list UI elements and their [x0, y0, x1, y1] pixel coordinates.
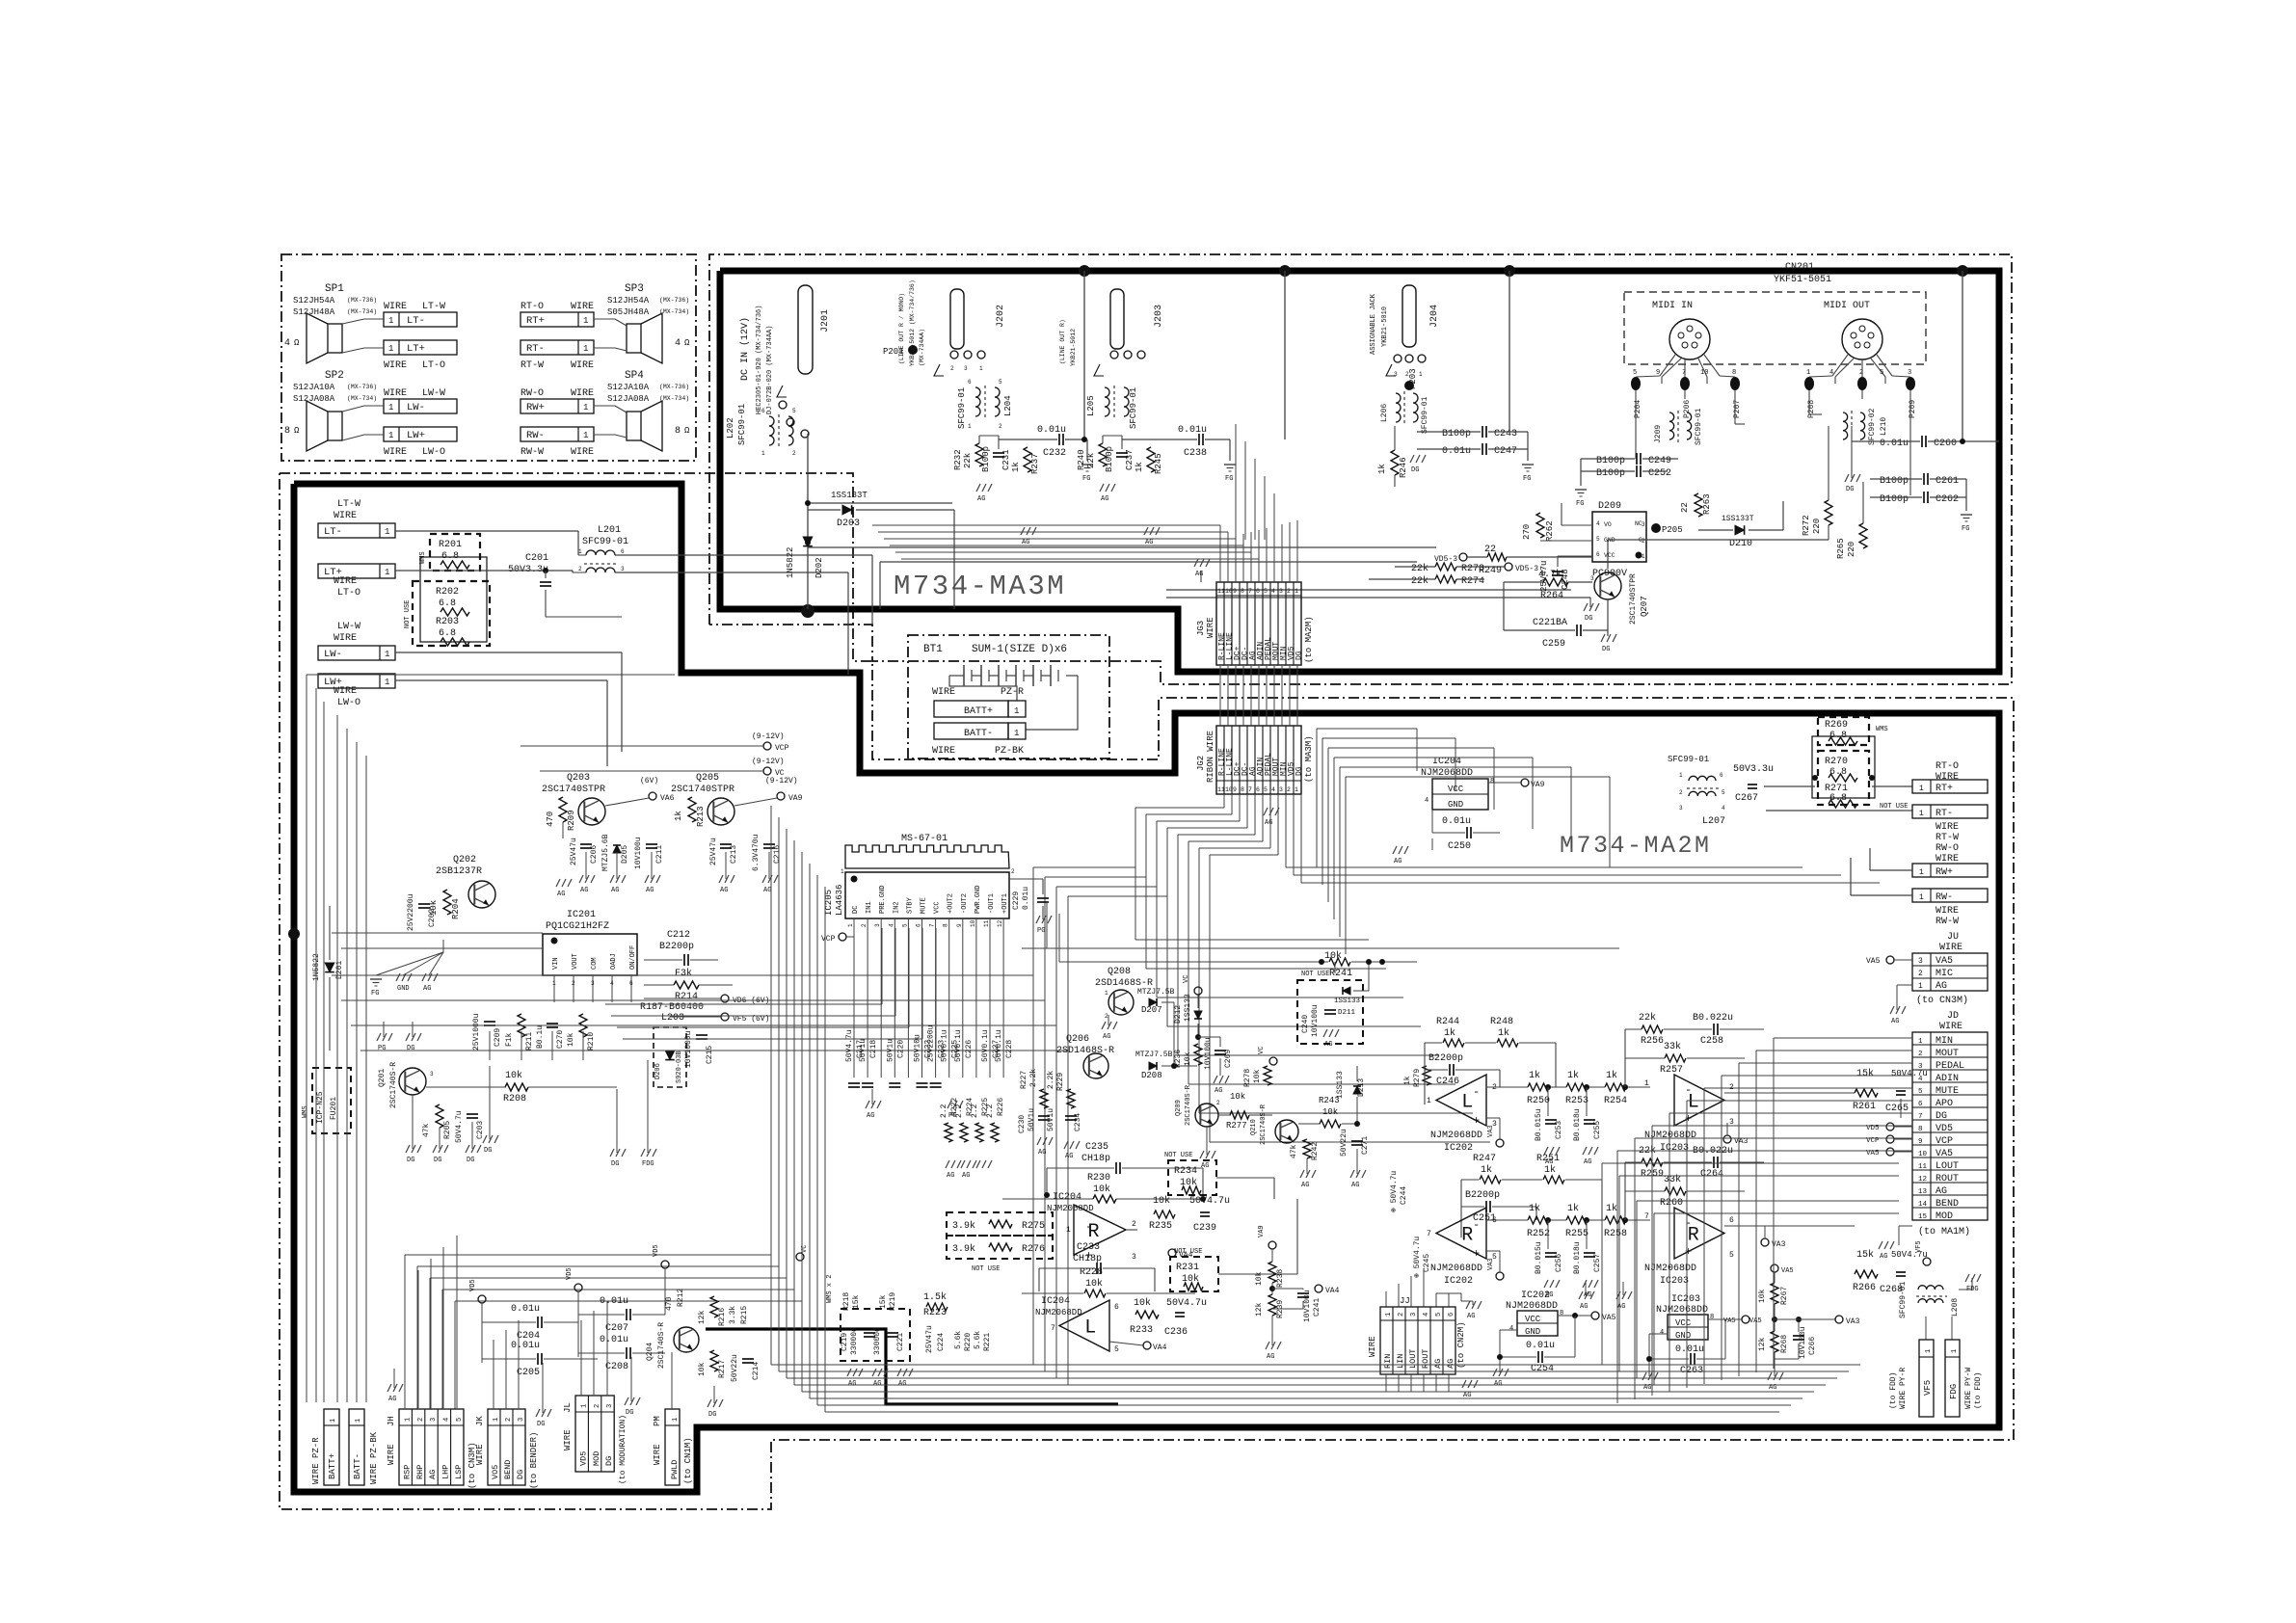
svg-text:-: - [1473, 1085, 1480, 1099]
svg-text:LW-O: LW-O [422, 447, 445, 458]
svg-text:VD5-3: VD5-3 [1434, 555, 1457, 564]
bottom horizontal feed wires [307, 674, 675, 676]
svg-text:50V4.7u: 50V4.7u [455, 1110, 464, 1143]
svg-text:R244: R244 [1436, 1017, 1459, 1027]
svg-text:C205: C205 [517, 1368, 540, 1378]
svg-text:WIRE: WIRE [334, 576, 357, 587]
svg-text:1k: 1k [1135, 462, 1144, 472]
ground AG under C269 [1214, 1076, 1217, 1083]
svg-text:(to FDD): (to FDD) [1889, 1372, 1898, 1409]
svg-text:P208: P208 [1807, 400, 1816, 418]
svg-text:MTZJ7.5B: MTZJ7.5B [1135, 1051, 1173, 1059]
svg-text:B0.018u: B0.018u [1573, 1241, 1582, 1274]
svg-text:WMS x 2: WMS x 2 [826, 1275, 834, 1303]
svg-text:DG: DG [516, 1470, 525, 1479]
svg-text:5: 5 [1729, 1251, 1734, 1260]
svg-text:MTZJ5.6B: MTZJ5.6B [601, 834, 610, 871]
svg-text:R216: R216 [718, 1308, 727, 1326]
svg-text:6.8: 6.8 [439, 628, 456, 639]
svg-text:C266: C266 [1808, 1337, 1817, 1355]
ground AG under R237 [1021, 527, 1025, 535]
svg-text:R249: R249 [1479, 566, 1502, 576]
svg-text:VCP: VCP [775, 744, 789, 753]
wires down from JJ to bundle [1385, 1374, 1387, 1392]
svg-text:0.01u: 0.01u [1526, 1341, 1555, 1351]
svg-text:R247: R247 [1473, 1154, 1496, 1164]
svg-text:WIRE: WIRE [932, 746, 955, 757]
svg-text:VA9: VA9 [1258, 1225, 1266, 1237]
svg-text:IN1: IN1 [866, 901, 873, 914]
svg-text:0.01u: 0.01u [511, 1304, 540, 1315]
junction dots on MA3M top border [1079, 265, 1090, 277]
svg-text:J201: J201 [820, 309, 831, 333]
svg-text:LIN: LIN [1396, 1354, 1405, 1369]
svg-text:2SC1740STPR: 2SC1740STPR [542, 785, 605, 795]
svg-text:(6V): (6V) [640, 777, 658, 785]
svg-text:C260: C260 [1934, 439, 1957, 449]
svg-text:PG: PG [948, 1112, 956, 1120]
svg-text:LT-W: LT-W [337, 499, 360, 510]
svg-text:LW+: LW+ [407, 430, 425, 441]
svg-text:NOT USE: NOT USE [404, 600, 412, 628]
svg-text:L: L [1461, 1092, 1473, 1114]
svg-text:(to MA1M): (to MA1M) [1918, 1226, 1970, 1237]
svg-text:-OUT1: -OUT1 [988, 893, 996, 914]
resistors R270 R271 6.8 dashed [1818, 751, 1869, 805]
svg-text:R238: R238 [1276, 1269, 1285, 1288]
svg-text:DJ-072B-020 (MX-734AA): DJ-072B-020 (MX-734AA) [766, 326, 774, 414]
svg-text:1: 1 [1679, 772, 1683, 779]
svg-text:PWLD: PWLD [670, 1460, 680, 1479]
svg-text:4: 4 [1722, 805, 1725, 811]
svg-text:SP3: SP3 [625, 283, 644, 295]
ground AG right of JJ [1462, 1380, 1466, 1388]
svg-text:VA4: VA4 [1325, 1287, 1340, 1295]
svg-text:50V10u: 50V10u [914, 1034, 922, 1062]
svg-text:RW+: RW+ [526, 402, 545, 413]
svg-text:COM: COM [591, 957, 599, 970]
svg-text:JL: JL [563, 1402, 573, 1413]
ground DG under Q207 [1601, 634, 1605, 642]
svg-text:5: 5 [999, 379, 1002, 386]
svg-text:50V22u: 50V22u [731, 1354, 739, 1382]
svg-text:LW-: LW- [324, 649, 342, 660]
svg-text:R236: R236 [1174, 1050, 1183, 1068]
op-amp IC203 L [1674, 1075, 1724, 1126]
svg-text:C237: C237 [1125, 449, 1135, 470]
svg-text:3: 3 [1132, 1253, 1136, 1262]
svg-text:D212: D212 [1174, 1005, 1183, 1024]
svg-text:1: 1 [841, 868, 844, 875]
svg-text:-: - [1685, 1216, 1692, 1230]
svg-text:15k: 15k [852, 1294, 861, 1309]
svg-text:470: 470 [665, 1296, 674, 1311]
svg-text:6: 6 [1114, 1303, 1119, 1312]
svg-text:R212: R212 [677, 1289, 685, 1307]
ground AG inside D211 box [1323, 1029, 1327, 1037]
svg-text:10k: 10k [1230, 1092, 1245, 1102]
svg-text:IC203: IC203 [1660, 1276, 1689, 1287]
svg-text:R210: R210 [587, 1032, 596, 1051]
svg-text:10k: 10k [1322, 1107, 1338, 1117]
svg-text:-: - [1473, 1218, 1480, 1232]
ribbon wires JG3-JG2 [1219, 665, 1221, 726]
svg-text:NOT USE: NOT USE [1174, 1248, 1202, 1256]
svg-text:AG: AG [1891, 1018, 1899, 1025]
svg-text:1: 1 [493, 1418, 500, 1422]
svg-text:1: 1 [388, 316, 393, 326]
svg-text:10k: 10k [1153, 1195, 1170, 1207]
svg-text:MTZJ7.5B: MTZJ7.5B [1137, 988, 1175, 997]
svg-text:C270: C270 [556, 1030, 565, 1049]
coil L206 [1396, 393, 1401, 422]
svg-text:P204: P204 [1634, 400, 1642, 418]
MA2M inner corridor wires [1317, 728, 1417, 730]
svg-text:RHP: RHP [415, 1465, 425, 1479]
svg-text:AG: AG [867, 1112, 874, 1120]
svg-text:R270: R270 [1825, 757, 1848, 767]
wire BATT- [934, 723, 1008, 739]
svg-text:R232: R232 [953, 449, 963, 470]
svg-text:5: 5 [1435, 1313, 1443, 1317]
svg-text:C258: C258 [1700, 1036, 1723, 1047]
svg-text:6: 6 [1256, 588, 1260, 595]
wires into RW boxes [1870, 869, 1912, 871]
VD6 terminal [721, 995, 729, 1002]
svg-text:3: 3 [874, 923, 881, 927]
svg-text:10V100u: 10V100u [1799, 1326, 1807, 1359]
svg-text:R266: R266 [1853, 1283, 1876, 1293]
svg-text:2: 2 [950, 365, 954, 372]
svg-text:2: 2 [1287, 588, 1291, 595]
svg-text:WIRE PZ-R: WIRE PZ-R [311, 1437, 321, 1484]
svg-text:JJ: JJ [1400, 1296, 1410, 1306]
svg-text:1: 1 [355, 1419, 362, 1423]
grounds DG FDG right [610, 1149, 614, 1157]
svg-text:GND: GND [1525, 1327, 1540, 1337]
svg-text:C224: C224 [937, 1333, 946, 1351]
svg-text:1: 1 [1919, 893, 1924, 902]
svg-text:DG: DG [604, 1456, 614, 1466]
svg-text:VO: VO [1604, 521, 1612, 528]
svg-text:2.2: 2.2 [971, 1104, 979, 1118]
ground DG under L210 [1851, 426, 1853, 478]
svg-text:R201: R201 [439, 540, 462, 550]
svg-text:LW-O: LW-O [337, 698, 360, 708]
svg-text:3: 3 [606, 1404, 614, 1408]
svg-text:5.6k: 5.6k [954, 1331, 963, 1349]
svg-text:2SC1740STPR: 2SC1740STPR [671, 785, 734, 795]
svg-text:(MX-734): (MX-734) [347, 395, 377, 402]
svg-text:7: 7 [1248, 588, 1252, 595]
svg-text:IC202: IC202 [1444, 1276, 1473, 1287]
svg-text:1SS133T: 1SS133T [1722, 515, 1754, 523]
svg-text:R251: R251 [1536, 1154, 1560, 1164]
svg-text:15k: 15k [879, 1294, 888, 1309]
svg-text:R252: R252 [1527, 1229, 1550, 1239]
svg-text:5: 5 [1722, 789, 1725, 796]
svg-text:1: 1 [1014, 729, 1019, 738]
svg-text:(to CN2M): (to CN2M) [1456, 1321, 1466, 1369]
solid frame R270 [1812, 736, 1875, 798]
svg-text:SFC99-01: SFC99-01 [582, 537, 628, 547]
svg-text:AG: AG [763, 887, 771, 894]
svg-text:(to CN1M): (to CN1M) [683, 1437, 693, 1484]
svg-text:1: 1 [1642, 553, 1645, 560]
svg-text:LT-W: LT-W [422, 302, 445, 312]
wire from top dot down to C243 net [1508, 271, 1510, 432]
svg-text:LW-W: LW-W [422, 388, 445, 399]
svg-text:AG: AG [1936, 981, 1947, 992]
svg-text:50V22u: 50V22u [1340, 1129, 1348, 1157]
svg-text:RW+: RW+ [1936, 867, 1953, 878]
svg-text:(MX-734): (MX-734) [659, 308, 689, 315]
connector JG2 [1216, 726, 1301, 794]
svg-text:C261: C261 [1936, 476, 1959, 487]
svg-text:7: 7 [1682, 369, 1686, 377]
svg-text:FG: FG [1576, 500, 1584, 508]
lower board thick outline [294, 484, 1999, 1492]
svg-text:BEND: BEND [503, 1460, 513, 1479]
svg-text:50V3.3u: 50V3.3u [1733, 764, 1774, 775]
svg-text:R261: R261 [1853, 1102, 1876, 1112]
svg-text:WIRE: WIRE [932, 687, 955, 698]
svg-text:C234: C234 [1074, 1113, 1082, 1131]
svg-text:5: 5 [792, 408, 796, 414]
svg-text:PG: PG [378, 1045, 386, 1052]
svg-text:C238: C238 [1184, 448, 1207, 459]
svg-text:1: 1 [330, 1419, 337, 1423]
svg-text:JG2: JG2 [1196, 756, 1206, 771]
svg-text:Q210: Q210 [1250, 1119, 1258, 1135]
left-to-middle horizontal feeders [332, 974, 1033, 976]
svg-text:6: 6 [1596, 551, 1600, 558]
svg-text:25V47u: 25V47u [925, 1325, 934, 1353]
svg-text:IC202: IC202 [1521, 1290, 1550, 1301]
svg-text:C203: C203 [476, 1121, 485, 1139]
svg-text:R255: R255 [1565, 1229, 1589, 1239]
svg-text:1SS133T: 1SS133T [831, 491, 868, 500]
svg-text:DG: DG [407, 1045, 414, 1052]
svg-text:4: 4 [1271, 588, 1275, 595]
svg-text:4: 4 [675, 338, 681, 349]
svg-text:RW-W: RW-W [1936, 917, 1959, 927]
svg-text:9: 9 [956, 923, 963, 927]
grounds AG PG under pin wires [866, 1101, 869, 1108]
svg-text:C236: C236 [1164, 1327, 1188, 1338]
svg-text:4.7k: 4.7k [1538, 569, 1562, 580]
svg-text:PQ1CG21H2FZ: PQ1CG21H2FZ [546, 921, 609, 932]
svg-text:-OUT2: -OUT2 [961, 893, 969, 914]
svg-text:OADJ: OADJ [610, 953, 618, 970]
svg-text:WIRE: WIRE [334, 686, 357, 697]
svg-text:6: 6 [629, 980, 633, 987]
svg-text:AG: AG [1038, 1149, 1046, 1157]
svg-text:VA4: VA4 [1153, 1344, 1167, 1352]
svg-text:LT-: LT- [407, 315, 425, 327]
svg-text:-: - [1085, 1220, 1092, 1234]
svg-text:B2200p: B2200p [1465, 1190, 1500, 1201]
svg-text:(to BENDER): (to BENDER) [529, 1432, 539, 1489]
svg-text:J203: J203 [1154, 305, 1164, 328]
svg-text:VA9: VA9 [788, 794, 803, 803]
svg-text:IC202: IC202 [1444, 1143, 1473, 1154]
svg-text:2: 2 [792, 450, 796, 457]
svg-text:C215: C215 [706, 1046, 714, 1064]
svg-text:2SC1740S-R: 2SC1740S-R [1260, 1104, 1268, 1145]
svg-text:R279: R279 [1413, 1069, 1422, 1087]
svg-text:2: 2 [1859, 369, 1863, 377]
svg-text:2SC1740S-R: 2SC1740S-R [1185, 1084, 1192, 1126]
svg-text:R245: R245 [1154, 453, 1163, 474]
battery block dashed border [908, 635, 1109, 758]
svg-text:VCC: VCC [1525, 1315, 1541, 1324]
svg-text:R263: R263 [1702, 493, 1712, 515]
wire LT+ input box [318, 564, 395, 578]
svg-text:2: 2 [1679, 789, 1683, 796]
svg-text:R235: R235 [1149, 1221, 1172, 1232]
svg-text:10k: 10k [1182, 1273, 1199, 1285]
left feeder verticals to bottom bundle [1032, 867, 1034, 1365]
svg-text:R215: R215 [740, 1306, 749, 1324]
svg-text:10k: 10k [1085, 1278, 1103, 1290]
svg-text:DG: DG [537, 1421, 545, 1428]
svg-text:(MX-736): (MX-736) [347, 384, 377, 390]
wires from LT boxes to L201 [395, 530, 578, 532]
svg-text:6: 6 [761, 408, 765, 414]
svg-text:33k: 33k [1664, 1041, 1681, 1052]
svg-text:C231: C231 [1001, 449, 1011, 470]
svg-text:AG: AG [1446, 1359, 1455, 1369]
svg-text:2: 2 [578, 566, 582, 572]
svg-text:VC: VC [1258, 1047, 1266, 1054]
svg-text:1: 1 [672, 1418, 680, 1422]
resistor R238 10k [1268, 1241, 1276, 1249]
svg-text:5: 5 [1880, 369, 1883, 377]
svg-text:D201: D201 [335, 961, 344, 979]
svg-text:VA5: VA5 [1781, 1267, 1794, 1275]
svg-text:WIRE: WIRE [384, 388, 407, 399]
MIDI pads P204-P209 [1631, 377, 1641, 390]
ground AG under R245 [1144, 527, 1148, 535]
svg-text:2: 2 [999, 423, 1002, 430]
svg-text:1k: 1k [1606, 1203, 1617, 1214]
svg-text:IC204: IC204 [1053, 1192, 1081, 1203]
svg-text:VCC: VCC [1675, 1318, 1692, 1328]
svg-text:PG: PG [1037, 927, 1045, 935]
svg-text:C262: C262 [1936, 494, 1959, 505]
svg-text:R208: R208 [503, 1094, 526, 1104]
svg-text:NOT USE: NOT USE [972, 1265, 1000, 1273]
svg-text:SFC99-01: SFC99-01 [1668, 755, 1709, 764]
svg-text:D210: D210 [1729, 539, 1752, 549]
svg-text:D207: D207 [1141, 1005, 1162, 1015]
wire RW- to SP4 [521, 427, 594, 441]
svg-text:C254: C254 [1531, 1364, 1554, 1374]
svg-text:(9-12V): (9-12V) [752, 732, 785, 741]
ground AG under C237 [1100, 484, 1104, 492]
VC terminal above D212 [1194, 987, 1202, 995]
svg-text:AG: AG [1617, 1303, 1625, 1311]
svg-text:R233: R233 [1130, 1325, 1153, 1336]
svg-text:RIBON WIRE: RIBON WIRE [1206, 731, 1215, 783]
svg-text:4: 4 [284, 338, 290, 349]
svg-text:L205: L205 [1086, 395, 1096, 416]
svg-text:R278: R278 [1243, 1069, 1252, 1087]
svg-text:1: 1 [979, 365, 983, 372]
svg-text:DG: DG [1295, 766, 1304, 776]
svg-text:JU: JU [1947, 932, 1959, 943]
svg-text:50V0.1u: 50V0.1u [981, 1029, 990, 1062]
long wires in MA3M [808, 546, 1436, 548]
svg-text:Q207: Q207 [1640, 596, 1649, 617]
svg-text:S05JH48A: S05JH48A [607, 307, 650, 317]
svg-text:B100p: B100p [1105, 446, 1114, 472]
svg-text:CH18p: CH18p [1081, 1154, 1110, 1164]
svg-text:MOD: MOD [592, 1451, 601, 1466]
svg-text:(to MA2M): (to MA2M) [1304, 616, 1314, 663]
svg-text:M734-MA3M: M734-MA3M [894, 571, 1066, 602]
svg-text:RT-W: RT-W [521, 360, 544, 371]
VC terminal at Q210 [1269, 1057, 1277, 1065]
svg-text:10k: 10k [1253, 1069, 1262, 1083]
svg-text:2SC1740STPR: 2SC1740STPR [1629, 573, 1638, 625]
svg-text:MUTE: MUTE [921, 897, 928, 914]
svg-text:2SC1740S-R: 2SC1740S-R [389, 1062, 398, 1108]
svg-text:3: 3 [1908, 369, 1911, 377]
resistor R267 10k [1771, 1264, 1778, 1272]
svg-text:1SS133: 1SS133 [1336, 1071, 1345, 1099]
svg-text:WIRE: WIRE [1936, 772, 1959, 783]
svg-text:LT+: LT+ [407, 343, 425, 355]
svg-text:25V47u: 25V47u [709, 838, 718, 865]
svg-text:7: 7 [1644, 1212, 1649, 1221]
svg-text:1: 1 [1919, 868, 1924, 877]
svg-text:4: 4 [1423, 1313, 1430, 1317]
VA3 terminal IC202R [1496, 1272, 1504, 1280]
VA3 terminal IC203L [1723, 1135, 1731, 1143]
svg-text:VD5: VD5 [566, 1267, 574, 1280]
svg-text:C240: C240 [1301, 1015, 1310, 1033]
svg-text:8: 8 [943, 923, 949, 927]
svg-text:AG: AG [557, 891, 565, 898]
svg-text:LOUT: LOUT [1408, 1349, 1418, 1369]
svg-text:C229: C229 [1012, 891, 1021, 910]
svg-text:S12JA10A: S12JA10A [607, 383, 650, 392]
svg-text:WIRE: WIRE [334, 633, 357, 644]
svg-text:3: 3 [1590, 575, 1594, 582]
svg-text:5: 5 [1633, 369, 1637, 377]
wire from J201 to board edge [807, 434, 809, 609]
svg-text:50V0.1u: 50V0.1u [941, 1029, 949, 1062]
svg-text:DG: DG [407, 1157, 414, 1164]
svg-text:WIRE: WIRE [1936, 822, 1959, 833]
svg-text:+: + [1473, 1247, 1480, 1261]
svg-text:1: 1 [847, 923, 854, 927]
VA3 terminal right of C266 [1835, 1316, 1843, 1323]
svg-text:NOT USE: NOT USE [1301, 971, 1329, 978]
svg-text:DG: DG [1846, 486, 1854, 493]
svg-text:1k: 1k [1567, 1070, 1579, 1081]
svg-text:15k: 15k [1856, 1249, 1874, 1261]
svg-text:F3k: F3k [675, 968, 692, 979]
svg-text:R272: R272 [1802, 515, 1811, 536]
svg-text:8: 8 [675, 426, 681, 437]
svg-text:2SD1468S-R: 2SD1468S-R [1056, 1046, 1114, 1056]
resistors R275 R276 3.9k not use [947, 1212, 1053, 1236]
svg-text:IC203: IC203 [1671, 1294, 1700, 1305]
svg-text:+OUT2: +OUT2 [948, 893, 955, 914]
